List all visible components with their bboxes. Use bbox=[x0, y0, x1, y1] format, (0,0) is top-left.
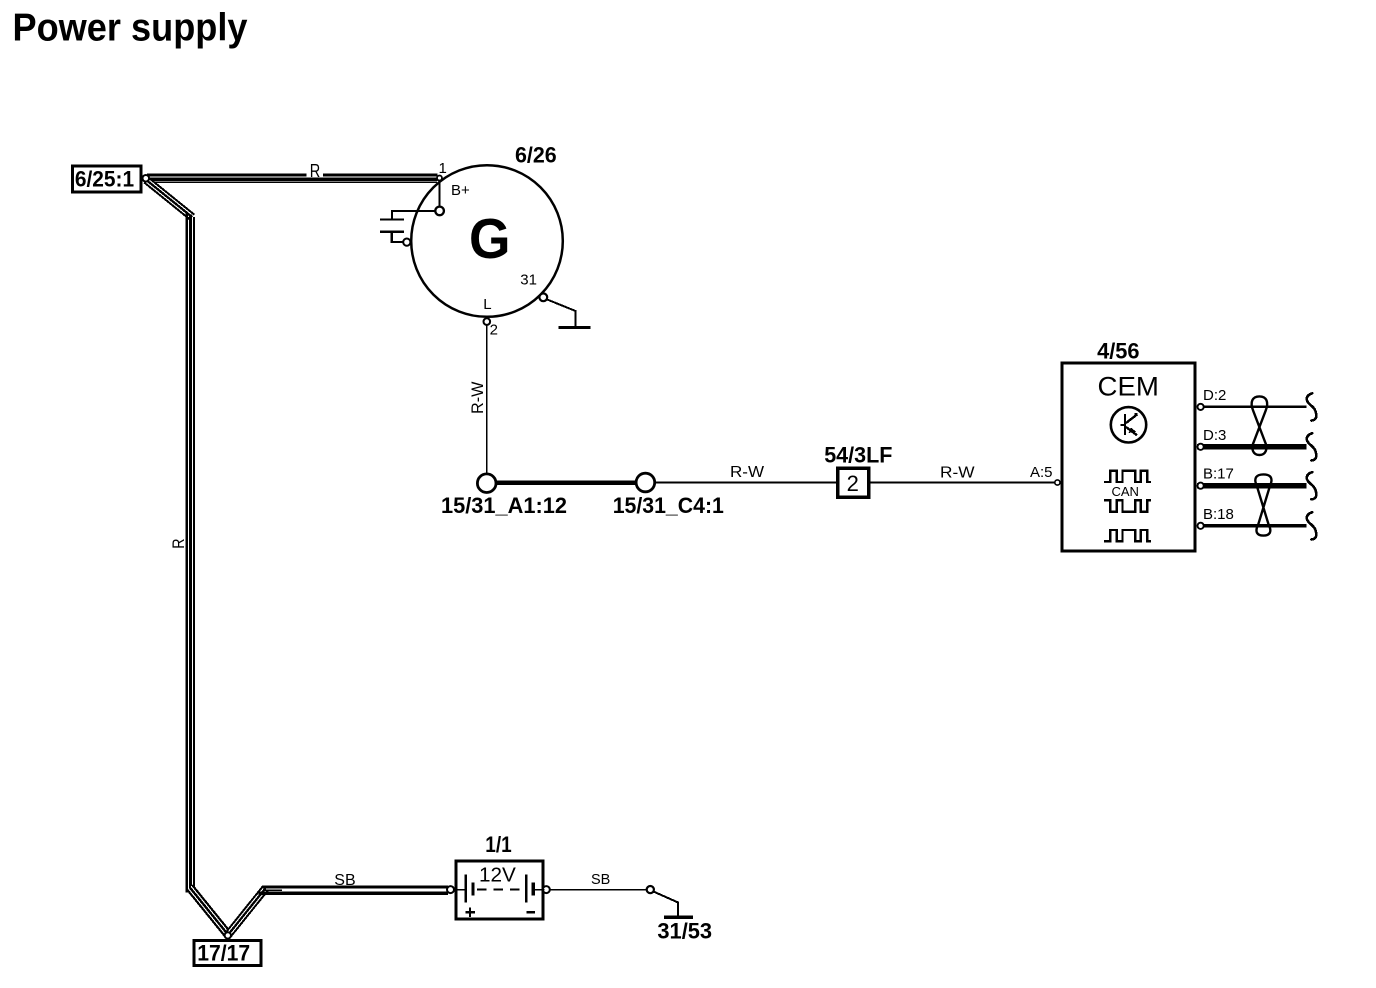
svg-text:CEM: CEM bbox=[1098, 372, 1159, 402]
svg-text:54/3LF: 54/3LF bbox=[824, 442, 892, 467]
svg-text:D:3: D:3 bbox=[1203, 427, 1226, 444]
svg-text:1: 1 bbox=[439, 160, 447, 177]
svg-text:R: R bbox=[310, 161, 321, 181]
svg-text:31: 31 bbox=[520, 272, 537, 289]
svg-text:G: G bbox=[469, 207, 511, 271]
svg-text:D:2: D:2 bbox=[1203, 387, 1226, 404]
svg-text:4/56: 4/56 bbox=[1097, 339, 1139, 364]
svg-text:15/31_A1:12: 15/31_A1:12 bbox=[441, 493, 567, 518]
svg-text:SB: SB bbox=[591, 872, 610, 888]
svg-text:15/31_C4:1: 15/31_C4:1 bbox=[613, 493, 724, 518]
svg-text:R-W: R-W bbox=[730, 464, 765, 481]
svg-text:Power supply: Power supply bbox=[13, 6, 248, 49]
svg-text:A:5: A:5 bbox=[1030, 464, 1053, 481]
svg-text:17/17: 17/17 bbox=[197, 940, 250, 965]
svg-text:L: L bbox=[483, 296, 491, 313]
svg-text:R-W: R-W bbox=[468, 382, 487, 414]
svg-text:SB: SB bbox=[334, 872, 355, 889]
svg-text:1/1: 1/1 bbox=[485, 832, 511, 857]
svg-text:R: R bbox=[169, 539, 188, 549]
svg-text:6/25:1: 6/25:1 bbox=[75, 167, 134, 192]
svg-text:12V: 12V bbox=[479, 864, 516, 887]
svg-text:R-W: R-W bbox=[940, 465, 975, 482]
svg-text:CAN: CAN bbox=[1112, 484, 1139, 499]
svg-text:2: 2 bbox=[847, 471, 859, 496]
svg-text:31/53: 31/53 bbox=[657, 919, 712, 944]
svg-text:2: 2 bbox=[490, 322, 498, 339]
svg-text:B+: B+ bbox=[451, 182, 470, 199]
svg-text:B:18: B:18 bbox=[1203, 506, 1234, 523]
svg-text:6/26: 6/26 bbox=[515, 143, 557, 168]
svg-text:B:17: B:17 bbox=[1203, 466, 1234, 483]
